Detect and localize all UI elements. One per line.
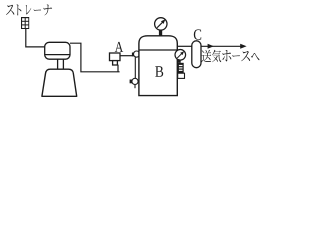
neck below cup bbox=[58, 59, 64, 70]
upper inlet circle bbox=[134, 51, 140, 57]
pipe valve A to tank bbox=[120, 55, 132, 57]
separator C bbox=[192, 41, 201, 68]
pressure gauge G2 bbox=[175, 50, 186, 61]
vertical pipe bbox=[134, 57, 136, 79]
pipe tank to C bbox=[177, 45, 192, 47]
wire strainer to cup bbox=[26, 29, 45, 47]
pipe cup to valve A bbox=[70, 43, 120, 72]
label C bbox=[194, 29, 201, 39]
pressure gauge stem bbox=[159, 30, 162, 36]
outlet arrow bbox=[201, 44, 247, 49]
strainer symbol bbox=[21, 17, 29, 29]
label A bbox=[115, 42, 123, 52]
valve lower flange bbox=[178, 73, 185, 78]
valve A body bbox=[110, 53, 121, 65]
pressure gauge G1 bbox=[155, 18, 167, 30]
gauge 2 stem bbox=[178, 60, 181, 63]
label B bbox=[155, 66, 163, 77]
tank B body bbox=[139, 36, 177, 96]
label 送気ホースへ (to air hose) bbox=[201, 50, 259, 62]
lower inlet tick bbox=[130, 80, 133, 84]
lower inlet circle bbox=[132, 78, 138, 84]
ribbed valve block bbox=[178, 63, 184, 73]
stub below lower inlet bbox=[134, 84, 136, 88]
label ストレーナ (strainer) bbox=[6, 4, 52, 15]
container cup bbox=[45, 42, 70, 59]
upper inlet tick bbox=[132, 53, 135, 57]
funnel hopper bbox=[42, 69, 77, 96]
